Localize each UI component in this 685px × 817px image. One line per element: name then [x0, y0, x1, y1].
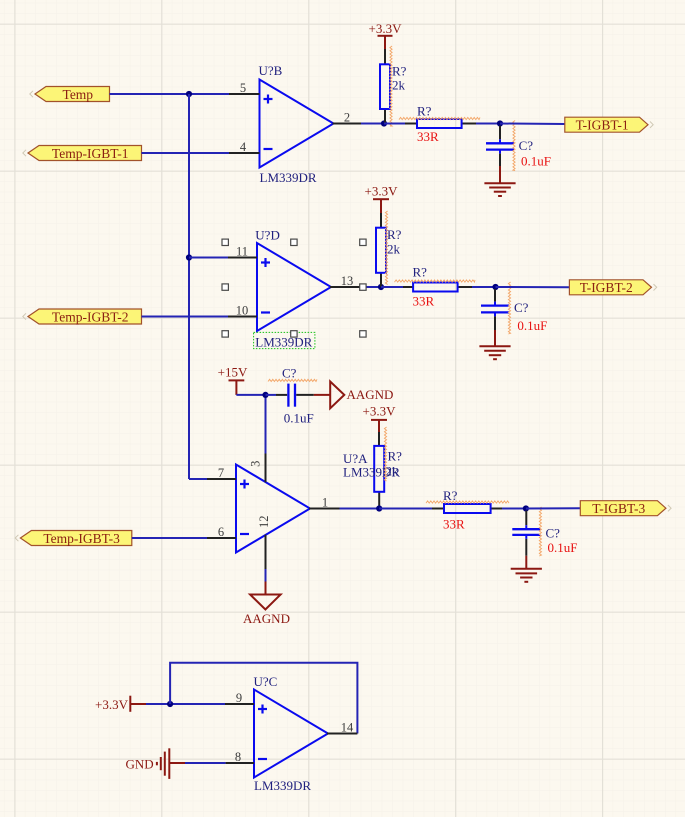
svg-text:+3.3V: +3.3V	[363, 404, 397, 419]
wire output to node	[361, 123, 384, 125]
node output 2	[497, 120, 503, 126]
power AAGND	[243, 582, 290, 626]
wire node to R2	[384, 123, 407, 125]
resistor R2 33R leads	[405, 123, 417, 125]
svg-text:1: 1	[322, 495, 328, 509]
svg-text:+3.3V: +3.3V	[95, 697, 129, 712]
svg-text:13: 13	[341, 274, 354, 288]
node output 6	[523, 505, 529, 511]
wire pin 12 to AAGND	[265, 569, 267, 582]
svg-text:5: 5	[240, 81, 246, 95]
svg-text:R?: R?	[387, 227, 402, 242]
wire to port T-IGBT-2	[496, 286, 570, 288]
svg-text:C?: C?	[519, 138, 534, 153]
pin 8	[226, 750, 254, 764]
svg-text:10: 10	[236, 303, 249, 317]
wire pin 3 to +15V node	[265, 395, 267, 454]
port T-IGBT-1	[565, 117, 648, 132]
svg-text:0.1uF: 0.1uF	[548, 540, 578, 555]
wire cap lead	[499, 126, 501, 140]
pin 2 output	[333, 110, 362, 124]
op-amp U?D	[257, 243, 331, 331]
pin 14 output	[327, 720, 357, 734]
ground earth symbol	[479, 345, 510, 347]
svg-text:Temp-IGBT-2: Temp-IGBT-2	[52, 309, 129, 324]
wire to port T-IGBT-1	[500, 123, 565, 126]
selection box LM339DR	[254, 332, 315, 348]
power +3.3V	[365, 184, 399, 214]
svg-text:8: 8	[235, 750, 241, 764]
svg-text:AAGND: AAGND	[243, 611, 290, 626]
port Temp-IGBT-3	[20, 531, 131, 546]
pin 13 output	[330, 274, 360, 288]
power GND	[126, 748, 186, 779]
ground earth symbol	[511, 568, 542, 570]
pin 6	[207, 525, 236, 539]
svg-text:U?B: U?B	[259, 63, 283, 78]
svg-text:3: 3	[248, 461, 262, 467]
svg-text:33R: 33R	[417, 129, 439, 144]
svg-text:12: 12	[257, 515, 271, 528]
svg-text:0.1uF: 0.1uF	[521, 154, 551, 169]
wire bus to pin 11	[189, 257, 228, 259]
svg-text:LM339DR: LM339DR	[255, 335, 312, 350]
wire node to R6	[379, 508, 432, 510]
wire cap lead	[494, 289, 496, 302]
power +15V	[218, 365, 248, 395]
svg-text:GND: GND	[126, 757, 154, 772]
resistor R4 33R leads	[403, 286, 413, 288]
svg-text:U?D: U?D	[255, 228, 280, 243]
resistor R6 33R leads	[432, 508, 444, 510]
svg-text:0.1uF: 0.1uF	[284, 411, 314, 426]
pin 4	[229, 140, 260, 154]
svg-text:R?: R?	[413, 265, 428, 280]
pin 9	[225, 691, 254, 705]
resistor R1 2k leads	[384, 49, 386, 64]
resistor R3 2k body	[376, 228, 386, 273]
wire cap lead	[525, 511, 527, 526]
wire node to C3	[266, 394, 277, 396]
wire node to R4	[381, 286, 403, 288]
svg-text:C?: C?	[514, 300, 529, 315]
svg-text:Temp-IGBT-3: Temp-IGBT-3	[43, 531, 120, 546]
node feedback junction	[167, 701, 173, 707]
op-amp U?C	[254, 690, 328, 778]
svg-text:T-IGBT-1: T-IGBT-1	[576, 118, 629, 133]
pin 12 power	[257, 515, 271, 569]
node output 5	[376, 505, 382, 511]
svg-text:2k: 2k	[386, 464, 400, 479]
capacitor plates	[512, 528, 540, 530]
op-amp U?B	[260, 80, 334, 168]
svg-text:2k: 2k	[387, 242, 401, 257]
port Temp	[35, 87, 110, 102]
wire to ground	[499, 154, 501, 166]
svg-text:33R: 33R	[413, 294, 435, 309]
port Temp-IGBT-1	[28, 146, 142, 161]
wire Temp bus vertical	[188, 94, 190, 479]
svg-text:4: 4	[240, 140, 247, 154]
wire +3.3V to pin 9	[146, 703, 225, 705]
wire Temp to pin 5	[110, 93, 230, 95]
pin 1 output	[309, 495, 340, 509]
wire feedback	[170, 663, 357, 734]
svg-text:C?: C?	[546, 526, 561, 541]
wire output to node	[360, 286, 381, 288]
capacitor plates	[486, 142, 514, 144]
power +3.3V bar	[95, 696, 146, 712]
wire to port T-IGBT-3	[526, 507, 580, 509]
svg-text:+3.3V: +3.3V	[365, 184, 399, 199]
svg-text:R?: R?	[392, 64, 407, 79]
grid major lines	[14, 0, 16, 817]
svg-text:C?: C?	[282, 366, 297, 381]
wire to ground	[525, 539, 527, 556]
port T-IGBT-3	[580, 501, 666, 516]
wire +15V to node	[236, 394, 265, 396]
wire Temp-IGBT-3 to pin 6	[132, 537, 207, 539]
resistor R5 2k leads	[378, 432, 380, 446]
selection handles U?D	[222, 239, 228, 245]
svg-text:14: 14	[341, 720, 354, 734]
svg-text:2: 2	[344, 110, 350, 124]
svg-text:6: 6	[218, 525, 224, 539]
svg-text:U?C: U?C	[254, 674, 278, 689]
resistor R1 2k body	[380, 64, 390, 109]
capacitor plates	[481, 304, 509, 306]
svg-text:11: 11	[236, 244, 248, 258]
wire Temp-IGBT-2 to pin 10	[142, 316, 229, 318]
svg-text:R?: R?	[388, 449, 403, 464]
wire R2 to node 2	[476, 123, 500, 125]
pin 7	[207, 466, 236, 480]
svg-text:LM339DR: LM339DR	[254, 778, 311, 793]
svg-text:Temp: Temp	[63, 87, 94, 102]
svg-text:0.1uF: 0.1uF	[517, 318, 547, 333]
pin 5	[229, 81, 260, 95]
node +15V junction	[262, 392, 268, 398]
svg-text:9: 9	[236, 691, 242, 705]
svg-text:Temp-IGBT-1: Temp-IGBT-1	[52, 146, 129, 161]
svg-text:AAGND: AAGND	[347, 387, 394, 402]
power +3.3V	[369, 21, 403, 49]
pin 11	[228, 244, 257, 258]
resistor R3 2k leads	[380, 213, 382, 228]
wire Temp-IGBT-1 to pin 4	[142, 152, 230, 154]
wire output to node	[340, 508, 380, 510]
ground earth symbol	[484, 182, 515, 184]
node output 1	[381, 120, 387, 126]
node output 4	[492, 284, 498, 290]
svg-text:2k: 2k	[392, 78, 406, 93]
resistor R2 33R body	[417, 119, 462, 128]
port T-IGBT-2	[569, 280, 651, 295]
capacitor C3 plates	[287, 384, 289, 407]
port Temp-IGBT-2	[28, 309, 142, 324]
wire R4 to node 4	[472, 286, 496, 288]
svg-text:LM339DR: LM339DR	[260, 170, 317, 185]
wire to ground	[494, 316, 496, 330]
resistor R5 2k body	[374, 446, 384, 492]
wire R6 to node 6	[502, 508, 526, 510]
power +3.3V	[363, 404, 397, 433]
node Temp junction	[186, 91, 192, 97]
power port AAGND arrow	[314, 382, 394, 409]
node output 3	[378, 284, 384, 290]
svg-text:T-IGBT-2: T-IGBT-2	[580, 280, 633, 295]
node Temp bus junction 2	[186, 254, 192, 260]
resistor R4 33R body	[413, 283, 458, 292]
svg-text:7: 7	[218, 466, 224, 480]
svg-text:T-IGBT-3: T-IGBT-3	[592, 501, 645, 516]
capacitor C3 0.1uF leads	[276, 394, 287, 396]
svg-text:R?: R?	[417, 104, 432, 119]
pin 3 power	[248, 454, 265, 483]
op-amp U?A	[236, 465, 310, 553]
svg-text:+15V: +15V	[218, 365, 248, 380]
resistor R6 33R body	[444, 504, 491, 513]
svg-text:33R: 33R	[443, 516, 465, 531]
pin 10	[228, 303, 257, 317]
svg-text:+3.3V: +3.3V	[369, 21, 403, 36]
wire GND to pin 8	[185, 762, 226, 764]
wire bus corner to pin 7	[189, 478, 207, 480]
